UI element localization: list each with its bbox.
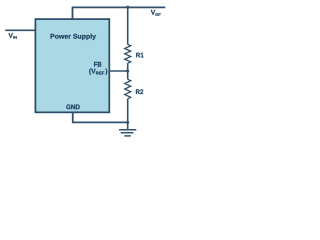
ground: [119, 130, 136, 136]
label R1: [136, 53, 143, 58]
wire rail to R1: [127, 7, 129, 44]
resistor R2: [125, 79, 131, 98]
node junction FB: [126, 69, 129, 72]
label VOUT: [151, 10, 161, 16]
node junction top: [126, 6, 129, 9]
wire FB pin: [109, 70, 127, 72]
pin label (VREF): [89, 68, 107, 74]
wire GND stub: [72, 112, 74, 123]
label R2: [136, 89, 143, 94]
label Power Supply: [51, 34, 96, 40]
wire VIN input: [5, 29, 35, 31]
label VIN: [8, 33, 16, 39]
wire R1 to node FB: [127, 63, 129, 79]
pin label FB: [94, 62, 101, 67]
pin label GND: [66, 104, 79, 109]
resistor R1: [125, 44, 131, 63]
wire VOUT rail: [72, 6, 166, 8]
power supply block: [35, 19, 109, 112]
node junction bottom: [126, 121, 129, 124]
wire box top to rail: [72, 7, 74, 19]
wire GND bottom: [73, 121, 128, 123]
wire R2 to ground: [127, 99, 129, 130]
